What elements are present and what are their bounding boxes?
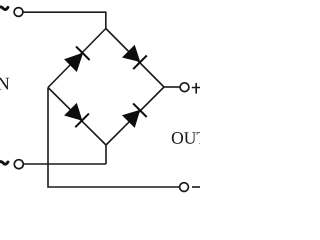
wire: lower-right bridge arm (106, 87, 164, 145)
terminal circle (bottom-left input) (14, 160, 23, 169)
terminal circle (top-left input) (14, 8, 23, 17)
AC source symbol ~ (top input) (0, 7, 8, 11)
wire: right vertex to positive output (164, 86, 180, 88)
diode D3 (lower-left arm, cathode toward bottom vertex) (64, 103, 89, 127)
wire: lower-left bridge arm (48, 88, 106, 146)
wire: upper-left bridge arm (48, 29, 106, 88)
AC source symbol ~ (bottom input) (0, 162, 8, 166)
diode D4 (lower-right arm, cathode toward right vertex) (122, 103, 147, 128)
wire: bottom input to bottom vertex (24, 145, 106, 164)
plus sign (positive output) (192, 83, 201, 94)
wire: left vertex down and along bottom to negative output (48, 88, 179, 188)
wire: upper-right bridge arm (106, 29, 164, 88)
label OUT (172, 132, 207, 144)
minus sign (negative output) (192, 186, 201, 188)
terminal circle (positive output) (180, 83, 189, 92)
diode D2 (upper-right arm, cathode toward right vertex) (122, 45, 147, 69)
diode D1 (upper-left arm, cathode toward top vertex) (64, 46, 90, 72)
terminal circle (negative output) (180, 183, 189, 192)
wire: top input to top vertex (23, 12, 106, 28)
label IN (0, 78, 9, 90)
